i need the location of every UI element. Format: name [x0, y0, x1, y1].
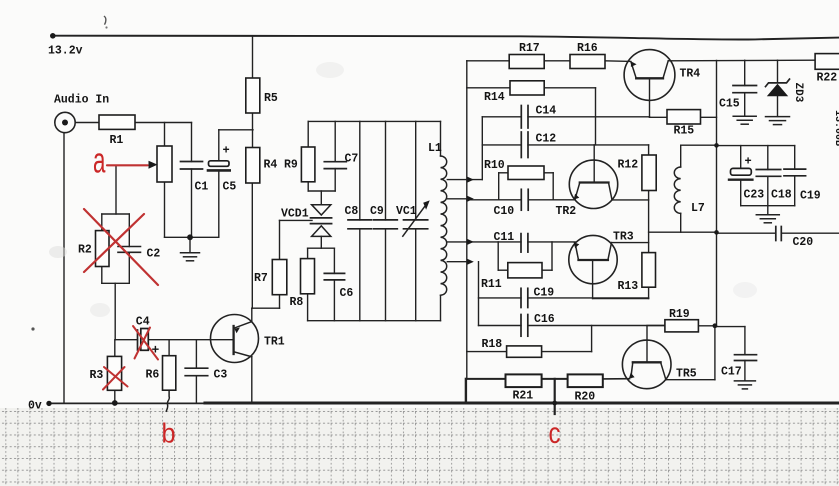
svg-text:Audio In: Audio In [54, 94, 109, 107]
svg-text:R11: R11 [481, 278, 502, 291]
svg-text:C6: C6 [340, 287, 354, 300]
svg-text:C19: C19 [800, 190, 821, 203]
svg-text:C2: C2 [147, 248, 161, 261]
svg-text:R17: R17 [519, 42, 540, 55]
svg-text:R5: R5 [264, 92, 278, 105]
svg-text:C4: C4 [136, 316, 150, 329]
svg-text:R6: R6 [146, 369, 160, 382]
svg-text:R20: R20 [575, 391, 596, 404]
svg-text:C9: C9 [370, 205, 384, 218]
svg-text:0v: 0v [28, 400, 42, 413]
svg-text:R4: R4 [264, 159, 278, 172]
svg-text:C18: C18 [771, 189, 792, 202]
svg-text:C17: C17 [721, 366, 742, 379]
svg-text:C5: C5 [223, 181, 237, 194]
svg-text:R14: R14 [484, 91, 505, 104]
svg-text:C11: C11 [494, 231, 515, 244]
svg-text:C8: C8 [345, 205, 359, 218]
svg-text:R7: R7 [254, 272, 268, 285]
svg-text:C15: C15 [719, 98, 740, 111]
svg-text:C16: C16 [534, 313, 555, 326]
svg-text:C7: C7 [345, 153, 359, 166]
svg-text:R22: R22 [817, 72, 838, 85]
svg-text:C14: C14 [536, 105, 557, 118]
svg-text:TR3: TR3 [613, 231, 634, 244]
svg-text:b: b [162, 417, 176, 449]
svg-text:C3: C3 [214, 369, 228, 382]
svg-text:R2: R2 [78, 244, 92, 257]
svg-text:VC1: VC1 [396, 205, 417, 218]
svg-text:TR2: TR2 [556, 205, 577, 218]
svg-text:C10: C10 [494, 205, 515, 218]
svg-text:C20: C20 [793, 236, 814, 249]
svg-text:R9: R9 [284, 159, 298, 172]
svg-text:R19: R19 [669, 308, 690, 321]
svg-text:TR1: TR1 [264, 336, 285, 349]
svg-text:R13: R13 [618, 280, 639, 293]
svg-text:R16: R16 [577, 42, 598, 55]
svg-text:L1: L1 [428, 142, 442, 155]
svg-text:L7: L7 [691, 202, 705, 215]
svg-text:13.2v: 13.2v [48, 45, 83, 58]
svg-text:c: c [549, 415, 561, 449]
svg-text:TR4: TR4 [680, 68, 701, 81]
svg-text:13.00B: 13.00B [832, 110, 839, 146]
svg-text:R21: R21 [513, 390, 534, 403]
svg-text:C12: C12 [536, 133, 557, 146]
svg-text:R8: R8 [290, 296, 304, 309]
svg-text:R1: R1 [110, 134, 124, 147]
svg-text:C1: C1 [195, 181, 209, 194]
svg-text:R3: R3 [90, 369, 104, 382]
svg-text:R10: R10 [484, 159, 505, 172]
svg-text:ZD3: ZD3 [792, 83, 804, 103]
svg-text:VCD1: VCD1 [281, 208, 309, 221]
svg-text:a: a [93, 141, 106, 181]
svg-text:+: + [745, 155, 752, 169]
svg-text:R12: R12 [618, 159, 639, 172]
svg-text:R15: R15 [674, 125, 695, 138]
svg-text:R18: R18 [482, 338, 503, 351]
svg-text:C19: C19 [534, 287, 555, 300]
svg-text:+: + [223, 144, 230, 158]
svg-text:C23: C23 [744, 189, 765, 202]
svg-text:TR5: TR5 [676, 368, 697, 381]
